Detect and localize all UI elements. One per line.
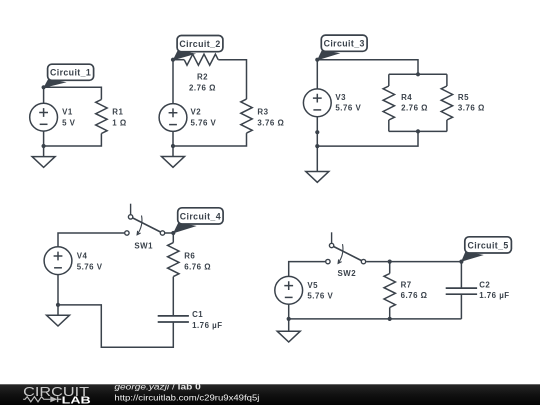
wire SW2 to C2 — [366, 261, 461, 263]
svg-text:1.76 µF: 1.76 µF — [192, 321, 222, 330]
ground circuit1 — [32, 146, 55, 167]
svg-text:C1: C1 — [192, 310, 203, 319]
wire circuit1 top — [44, 87, 102, 99]
wire V5 bottom stub — [288, 304, 290, 319]
svg-text:5 V: 5 V — [62, 118, 76, 127]
node circuit5 V5 bottom — [287, 317, 291, 321]
node circuit4 bottom — [56, 303, 60, 307]
wire R5 top lead — [446, 74, 448, 86]
svg-text:1 Ω: 1 Ω — [112, 118, 126, 127]
node circuit3 bottom — [315, 144, 319, 148]
node circuit1 bottom — [42, 144, 46, 148]
wire R6 top lead — [172, 233, 174, 243]
svg-text:V2: V2 — [191, 107, 202, 116]
wire circuit3 top — [317, 60, 418, 75]
resistor R6 — [168, 243, 179, 277]
resistor R4 — [383, 86, 394, 120]
voltage source V5 — [275, 276, 303, 304]
label Circuit_1 callout — [43, 64, 93, 88]
wire V4 bottom stub — [57, 275, 59, 305]
svg-text:6.76 Ω: 6.76 Ω — [401, 291, 428, 300]
ground circuit3 — [306, 146, 329, 182]
svg-text:5.76 V: 5.76 V — [77, 262, 103, 271]
resistor R2 — [184, 54, 218, 65]
svg-text:SW2: SW2 — [338, 269, 357, 278]
svg-text:3.76 Ω: 3.76 Ω — [257, 118, 284, 127]
wire C2 bottom lead — [460, 294, 462, 319]
node circuit5 C2 top — [459, 260, 463, 264]
svg-text:http://circuitlab.com/c29ru9x4: http://circuitlab.com/c29ru9x49fq5j — [114, 392, 259, 402]
svg-text:2.76 Ω: 2.76 Ω — [401, 103, 428, 112]
ground circuit4 — [47, 305, 70, 326]
wire circuit1 bottom — [44, 134, 102, 147]
capacitor C2 — [446, 288, 477, 294]
ground circuit5 — [277, 319, 300, 342]
wire SW1 to node — [164, 232, 173, 234]
voltage source V4 — [44, 247, 72, 275]
svg-text:LAB: LAB — [62, 395, 91, 405]
svg-text:george.yazji / lab 0: george.yazji / lab 0 — [114, 383, 201, 392]
svg-text:V4: V4 — [77, 252, 88, 261]
svg-text:Circuit_5: Circuit_5 — [467, 240, 508, 250]
resistor R5 — [441, 86, 452, 120]
switch SW1 — [125, 204, 165, 236]
wire circuit3 bottom — [317, 131, 418, 146]
wire V4 to SW1 — [58, 233, 125, 247]
wire circuit5 bottom — [289, 318, 462, 320]
wire R4 top lead — [388, 74, 390, 86]
wire V1 stubs — [43, 87, 45, 146]
node circuit5 R7 bottom — [388, 317, 392, 321]
wire R4 bottom lead — [388, 120, 390, 131]
wire V3 stubs — [316, 60, 318, 146]
wire circuit3 top bus — [389, 73, 447, 75]
svg-text:V5: V5 — [307, 281, 318, 290]
wire circuit2 top-left — [173, 59, 184, 61]
wire R7 top lead — [389, 262, 391, 274]
voltage source V1 — [30, 103, 58, 131]
node circuit3 junction bottom — [416, 129, 420, 133]
svg-text:V3: V3 — [335, 93, 346, 102]
node circuit3 junction top — [416, 72, 420, 76]
node circuit3 top — [315, 58, 319, 62]
svg-text:R3: R3 — [257, 108, 268, 117]
svg-text:5.76 V: 5.76 V — [191, 118, 217, 127]
wire V2 stubs — [172, 60, 174, 146]
wire R6 to C1 — [172, 277, 174, 316]
svg-text:R6: R6 — [184, 252, 195, 261]
resistor R1 — [96, 100, 107, 134]
switch SW2 — [326, 232, 366, 263]
wire circuit4 return — [58, 305, 173, 347]
capacitor C1 — [158, 316, 189, 322]
node circuit1 top — [42, 85, 46, 89]
svg-text:Circuit_2: Circuit_2 — [179, 39, 220, 49]
label Circuit_3 callout — [317, 35, 367, 60]
node circuit5 R7 top — [388, 260, 392, 264]
label Circuit_4 callout — [173, 208, 223, 234]
svg-text:Circuit_3: Circuit_3 — [324, 39, 365, 49]
node circuit2 top — [171, 58, 175, 62]
svg-text:2.76 Ω: 2.76 Ω — [189, 84, 216, 93]
ground circuit2 — [162, 146, 185, 167]
svg-text:R5: R5 — [458, 93, 469, 102]
svg-text:5.76 V: 5.76 V — [307, 292, 333, 301]
wire R7 bottom lead — [389, 308, 391, 319]
svg-text:SW1: SW1 — [134, 242, 153, 251]
node V3 minus — [315, 130, 319, 134]
svg-text:Circuit_4: Circuit_4 — [180, 211, 221, 221]
wire V5 to SW2 — [289, 262, 326, 277]
voltage source V2 — [159, 104, 187, 132]
wire circuit3 bottom bus — [389, 130, 447, 132]
label Circuit_2 callout — [173, 36, 223, 61]
node circuit4 top — [171, 231, 175, 235]
svg-text:1.76 µF: 1.76 µF — [479, 291, 509, 300]
svg-text:3.76 Ω: 3.76 Ω — [458, 103, 485, 112]
svg-text:R1: R1 — [112, 107, 123, 116]
CircuitLab logo waveform — [23, 396, 61, 402]
svg-text:R7: R7 — [401, 281, 412, 290]
resistor R7 — [384, 274, 395, 308]
wire circuit2 top-right — [218, 60, 246, 99]
svg-text:R4: R4 — [401, 93, 412, 102]
svg-text:Circuit_1: Circuit_1 — [50, 68, 91, 78]
wire circuit2 bottom — [173, 133, 247, 146]
wire R5 bottom lead — [446, 120, 448, 131]
svg-text:R2: R2 — [197, 73, 208, 82]
node circuit2 bottom — [171, 144, 175, 148]
resistor R3 — [241, 99, 252, 133]
svg-text:5.76 V: 5.76 V — [335, 103, 361, 112]
svg-text:C2: C2 — [479, 281, 490, 290]
label Circuit_5 callout — [461, 237, 511, 262]
wire C2 top lead — [460, 262, 462, 289]
svg-text:V1: V1 — [62, 107, 73, 116]
voltage source V3 — [303, 89, 331, 117]
svg-text:6.76 Ω: 6.76 Ω — [184, 262, 211, 271]
